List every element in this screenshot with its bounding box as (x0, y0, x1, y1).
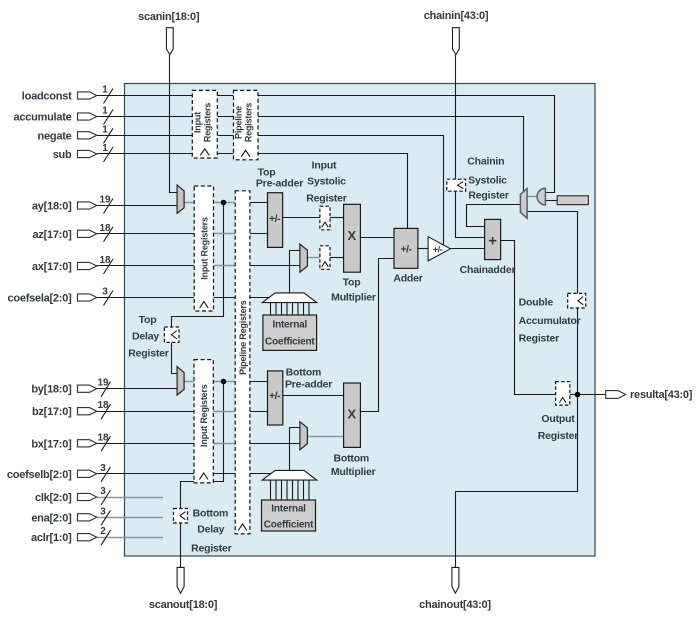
label input systolic register (306, 160, 347, 205)
label output register (538, 413, 579, 442)
junction node by scan tap (221, 379, 227, 385)
svg-text:Pipeline: Pipeline (234, 106, 244, 139)
svg-text:Double: Double (519, 297, 554, 309)
svg-text:Coefficient: Coefficient (265, 336, 315, 347)
wire output register to resulta (570, 394, 606, 396)
svg-text:ay[18:0]: ay[18:0] (32, 201, 72, 213)
svg-text:Register: Register (306, 193, 347, 205)
output register (556, 382, 570, 406)
svg-text:+/-: +/- (400, 244, 412, 256)
port az (33, 223, 113, 242)
wire az to pre-adder (250, 233, 268, 235)
wire by input (97, 388, 177, 390)
svg-text:Register: Register (538, 430, 579, 442)
port coefsela (7, 287, 113, 306)
svg-text:3: 3 (100, 486, 106, 497)
svg-text:19: 19 (99, 195, 111, 206)
wire bx register gap (214, 443, 236, 445)
svg-text:18: 18 (97, 400, 109, 411)
port coefselb (7, 463, 111, 482)
mux bx/coefficient (300, 422, 308, 450)
wire top delay register to by mux (172, 342, 178, 373)
bottom delay register (174, 509, 188, 524)
svg-text:19: 19 (97, 378, 109, 389)
svg-text:Top: Top (139, 314, 157, 326)
svg-text:Multiplier: Multiplier (331, 466, 376, 478)
wire systolic register to multiplier (330, 217, 344, 219)
svg-text:Registers: Registers (244, 103, 254, 142)
top pre-adder (268, 193, 283, 248)
svg-text:Register: Register (519, 333, 560, 345)
wire accumulator feedback (527, 212, 577, 395)
wire by to bottom pre-adder (250, 381, 268, 383)
top multiplier (344, 204, 361, 272)
svg-text:Chainin: Chainin (467, 156, 504, 168)
wire bz register gap (214, 411, 236, 413)
input systolic register bottom (320, 246, 330, 269)
svg-text:coefsela[2:0]: coefsela[2:0] (7, 293, 72, 305)
wire chainadder to output register (501, 241, 556, 395)
svg-text:Input Registers: Input Registers (199, 384, 209, 447)
double accumulator register (568, 293, 586, 308)
label top pre-adder (256, 167, 303, 190)
wire negation triangle to chainadder (450, 248, 484, 250)
chainadder (485, 219, 501, 259)
port scanin (138, 11, 200, 55)
svg-text:+: + (488, 232, 497, 249)
svg-text:bz[17:0]: bz[17:0] (32, 406, 72, 418)
wire accumulator mux output to chainadder (467, 205, 521, 227)
svg-text:Bottom: Bottom (193, 508, 229, 520)
port resulta (606, 389, 693, 401)
constant bar (557, 196, 588, 205)
svg-text:Chainadder: Chainadder (460, 264, 516, 276)
bottom multiplier (344, 383, 361, 447)
port bx (31, 432, 110, 451)
svg-text:Accumulator: Accumulator (519, 315, 581, 327)
label bottom multiplier (331, 453, 376, 479)
port chainin (424, 10, 489, 55)
svg-text:Delay: Delay (197, 524, 224, 536)
wire bx input (97, 443, 214, 445)
svg-text:scanout[18:0]: scanout[18:0] (149, 599, 218, 611)
svg-text:X: X (347, 228, 356, 243)
svg-text:X: X (347, 407, 356, 422)
svg-text:Register: Register (191, 543, 232, 555)
svg-text:2: 2 (100, 526, 106, 537)
wire top multiplier to adder (360, 237, 394, 239)
svg-text:coefselb[2:0]: coefselb[2:0] (7, 469, 72, 481)
svg-text:aclr[1:0]: aclr[1:0] (31, 532, 72, 544)
bottom input registers (194, 360, 213, 483)
svg-text:18: 18 (97, 432, 109, 443)
svg-text:ax[17:0]: ax[17:0] (32, 261, 72, 273)
svg-text:Registers: Registers (203, 103, 213, 142)
wire scan cascade to top delay register (172, 203, 224, 328)
wire coefsela input (97, 297, 271, 299)
svg-text:loadconst: loadconst (22, 91, 72, 103)
wire adder to negation triangle (418, 248, 428, 250)
mux ay/scanin (177, 185, 184, 214)
svg-text:Pre-adder: Pre-adder (285, 379, 332, 391)
pipeline registers (235, 191, 250, 534)
svg-text:Register: Register (128, 348, 169, 360)
wire bz input (97, 411, 214, 413)
wire coefselb input (97, 473, 271, 475)
svg-text:Pre-adder: Pre-adder (256, 178, 303, 190)
svg-text:accumulate: accumulate (13, 112, 71, 124)
svg-text:Coefficient: Coefficient (264, 520, 314, 531)
top delay register (164, 327, 179, 342)
svg-text:by[18:0]: by[18:0] (31, 384, 72, 396)
svg-text:+/-: +/- (433, 244, 443, 254)
wire clk stub (97, 497, 163, 499)
wire bottom coefficient riser (290, 428, 300, 471)
and gate loadconst (537, 188, 545, 205)
svg-text:Adder: Adder (393, 273, 422, 285)
svg-text:Pipeline Registers: Pipeline Registers (238, 300, 248, 375)
wire loadconst (97, 96, 555, 193)
svg-text:bx[17:0]: bx[17:0] (31, 438, 72, 450)
input systolic register top (320, 206, 330, 230)
wire ax input (97, 265, 214, 267)
wire coefficient mux to systolic register (307, 257, 320, 259)
wire chainout (456, 395, 578, 568)
top coefficient fan (262, 293, 317, 315)
label double accumulator register (519, 297, 581, 345)
port ena (31, 506, 110, 525)
port bz (32, 400, 111, 419)
wire az register gap (214, 233, 236, 235)
svg-text:Input Registers: Input Registers (199, 217, 209, 280)
wire systolic register to top multiplier (330, 257, 344, 259)
wire ay mux output (184, 202, 235, 204)
internal coefficient top (263, 315, 317, 350)
junction node resulta tap (575, 392, 581, 398)
wire negate (97, 136, 444, 246)
svg-text:resulta[43:0]: resulta[43:0] (630, 389, 693, 401)
wire top coefficient riser (290, 251, 300, 293)
svg-text:Systolic: Systolic (307, 176, 346, 188)
svg-text:sub: sub (53, 149, 72, 161)
svg-text:ena[2:0]: ena[2:0] (31, 512, 72, 524)
adder (394, 228, 418, 268)
internal coefficient bottom (262, 500, 316, 531)
port loadconst (22, 85, 113, 104)
wire aclr stub (97, 537, 163, 539)
svg-text:Register: Register (468, 190, 509, 202)
port clk (35, 486, 111, 505)
port sub (53, 143, 113, 162)
junction node ay scan tap (221, 200, 227, 206)
wire chainin (455, 55, 457, 180)
svg-text:az[17:0]: az[17:0] (33, 229, 73, 241)
svg-text:1: 1 (102, 124, 108, 135)
wire accumulate (97, 117, 524, 192)
wire bottom pre-adder to bottom multiplier (283, 395, 344, 397)
wire ena stub (97, 517, 163, 519)
bottom coefficient fan (262, 470, 317, 500)
wire bottom multiplier to adder (360, 259, 394, 412)
label bottom delay register (191, 508, 232, 555)
DSP block background (125, 84, 596, 557)
svg-text:chainin[43:0]: chainin[43:0] (424, 10, 489, 22)
port ax (32, 255, 113, 274)
wire ax to coefficient mux (250, 265, 300, 267)
wire sub (97, 154, 408, 229)
wire ay input (97, 205, 177, 207)
port accumulate (13, 106, 113, 125)
svg-text:scanin[18:0]: scanin[18:0] (138, 11, 200, 23)
wire and gate to accumulator mux (527, 196, 537, 198)
wire ax register gap (214, 265, 236, 267)
label top multiplier (331, 277, 376, 304)
wire bottom coefficient mux to multiplier (307, 436, 343, 438)
svg-text:Internal: Internal (271, 503, 306, 514)
svg-text:+/-: +/- (269, 213, 281, 225)
wire constant bar to and gate (545, 200, 557, 202)
svg-text:3: 3 (100, 506, 106, 517)
wire bz to bottom pre-adder (250, 411, 268, 413)
mux accumulator feedback (520, 189, 527, 219)
port ay (32, 195, 113, 214)
svg-text:Input: Input (312, 160, 337, 172)
port aclr (31, 526, 111, 545)
bottom pre-adder (268, 371, 283, 425)
wire by mux output (184, 381, 235, 383)
negation triangle (428, 237, 450, 261)
wire ay to pre-adder (250, 202, 268, 204)
port scanout (149, 567, 218, 611)
mux ax/coefficient (300, 244, 308, 272)
port by (31, 378, 110, 397)
wire bottom delay register to scanout (180, 523, 182, 567)
svg-text:Delay: Delay (132, 331, 159, 343)
svg-text:Internal: Internal (273, 319, 308, 330)
svg-text:Bottom: Bottom (334, 453, 370, 465)
control input registers (192, 90, 217, 158)
svg-text:1: 1 (102, 106, 108, 117)
port negate (38, 124, 113, 143)
wire top pre-adder to systolic register (283, 217, 320, 219)
svg-text:3: 3 (102, 287, 108, 298)
svg-text:Systolic: Systolic (468, 175, 507, 187)
control pipeline registers (234, 90, 259, 159)
svg-text:Input: Input (193, 112, 203, 133)
label chainin systolic register (467, 156, 509, 202)
svg-text:+/-: +/- (269, 390, 281, 402)
svg-text:3: 3 (100, 463, 106, 474)
wire chainin register to chainadder (456, 191, 485, 237)
svg-text:18: 18 (99, 255, 111, 266)
svg-text:1: 1 (102, 85, 108, 96)
wire scan cascade to bottom delay register (181, 382, 224, 509)
svg-text:negate: negate (38, 130, 72, 142)
label bottom pre-adder (285, 367, 332, 391)
svg-text:Multiplier: Multiplier (331, 292, 376, 304)
svg-text:18: 18 (99, 223, 111, 234)
svg-text:chainout[43:0]: chainout[43:0] (419, 599, 491, 611)
svg-text:clk[2:0]: clk[2:0] (35, 492, 72, 504)
svg-text:Bottom: Bottom (286, 367, 322, 379)
svg-text:Top: Top (343, 277, 361, 289)
chainin systolic register (447, 179, 466, 191)
port chainout (419, 567, 491, 611)
label top delay register (128, 314, 169, 360)
wire scanin to ay mux (170, 55, 178, 193)
mux by/delay (177, 367, 184, 396)
svg-text:1: 1 (102, 143, 108, 154)
top input registers (194, 186, 213, 311)
wire az input (97, 233, 214, 235)
wire bx to bottom coefficient mux (250, 443, 300, 445)
svg-text:Output: Output (541, 413, 575, 425)
